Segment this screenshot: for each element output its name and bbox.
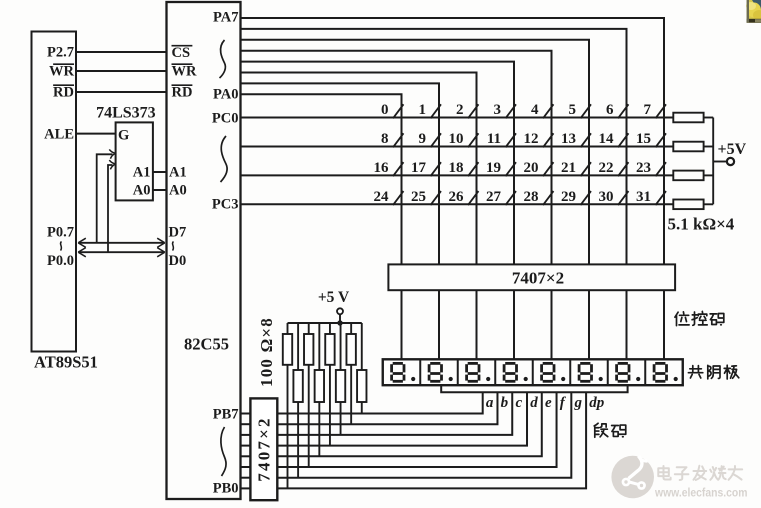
wire PB7 stub [241,413,251,415]
key 7 slash [656,104,667,118]
svg-text:dp: dp [589,395,605,411]
key 29 slash [581,191,592,205]
key 31 slash [656,191,667,205]
svg-text:5: 5 [569,102,577,118]
svg-text:22: 22 [599,160,614,176]
key 23 slash [656,162,667,176]
wire PA6 column [241,29,627,265]
svg-text:PA7: PA7 [213,10,239,26]
resistor 100ohm 1 [287,323,289,334]
svg-text:21: 21 [561,160,576,176]
squiggle PC [221,136,228,182]
svg-text:18: 18 [449,160,464,176]
wire segment 0 vertical [277,392,482,413]
key 15 slash [656,133,667,147]
key 13 slash [581,133,592,147]
svg-text:+5V: +5V [718,141,747,158]
wire digit drive 3 [476,290,478,359]
key 25 slash [431,191,442,205]
segment bus [441,385,627,392]
watermark text chinese [658,466,670,480]
key 21 slash [581,162,592,176]
label weikongma (bit control code) [675,312,689,326]
svg-text:www.elecfans.com: www.elecfans.com [654,486,747,500]
resistor 5.1k row2 [673,171,703,181]
buffer 7407x2 horizontal box [388,264,675,290]
svg-text:PA0: PA0 [213,86,239,102]
key 10 slash [468,133,479,147]
bus arrow P0.7-D7 [79,242,165,244]
resistor 100ohm 8 [361,323,363,370]
svg-text:0: 0 [381,102,389,118]
resistor 100ohm 6 [340,323,342,370]
svg-text:g: g [574,395,583,411]
wire A0 stub [153,189,167,191]
svg-text:27: 27 [486,189,502,205]
key 17 slash [431,162,442,176]
chip 74LS373 box [116,122,153,200]
svg-text:9: 9 [419,131,427,147]
7-segment digit 8 [654,363,666,381]
svg-text:15: 15 [636,131,651,147]
svg-text:100 Ω×8: 100 Ω×8 [257,317,276,387]
7-segment digit 7 [617,363,629,381]
wire ALE to G [76,133,116,135]
7-segment digit 2 [429,363,441,381]
wire PC2 row [241,174,674,176]
svg-text:7: 7 [644,102,652,118]
svg-text:RD: RD [172,85,193,101]
wire +5V tap [713,161,726,163]
7-segment digit 4 [504,363,516,381]
wire A1 stub [153,171,167,173]
key 3 slash [506,104,517,118]
svg-text:CS: CS [172,45,191,61]
svg-text:A0: A0 [169,183,187,199]
svg-text:14: 14 [599,131,615,147]
resistor 100ohm 3 [308,323,310,334]
svg-text:b: b [501,395,509,411]
wire digit drive 4 [513,290,515,359]
wire PC3 row [241,203,674,205]
resistor 5.1k row1 [673,142,703,152]
svg-text:20: 20 [524,160,539,176]
watermark logo [611,456,654,499]
display divider 7 [644,359,646,385]
terminal +5V circle mid [337,308,343,314]
svg-text:26: 26 [449,189,465,205]
key 28 slash [543,191,554,205]
svg-text:A1: A1 [169,165,187,181]
svg-text:28: 28 [524,189,539,205]
wire +5V rail mid [288,322,362,324]
svg-text:23: 23 [636,160,651,176]
chip 82C55 box [167,2,241,499]
svg-text:PB7: PB7 [213,407,239,423]
wire +5V rail right [712,118,714,205]
svg-text:RD: RD [53,85,74,101]
display divider 2 [457,359,459,385]
svg-text:e: e [545,395,552,411]
resistor 5.1k row0 [673,113,703,123]
wire +5V stem mid [339,315,341,324]
key 0 slash [393,104,404,118]
decorative image fragment [746,0,761,23]
key 4 slash [543,104,554,118]
wire digit drive 6 [588,290,590,359]
wire digit drive 8 [663,290,665,359]
svg-text:82C55: 82C55 [184,335,229,354]
wire PA0 column [241,94,402,264]
resistor 100ohm 5 [329,323,331,334]
svg-text:17: 17 [411,160,427,176]
svg-text:1: 1 [419,102,427,118]
wire PA1 column [241,83,440,264]
key 12 slash [543,133,554,147]
svg-text:74LS373: 74LS373 [96,105,156,122]
svg-text:31: 31 [636,189,651,205]
wire PA3 column [241,62,515,265]
key 8 slash [393,133,404,147]
bus arrow P0.0-D0 [79,251,165,253]
key 11 slash [506,133,517,147]
svg-text:16: 16 [374,160,390,176]
svg-text:7407×2: 7407×2 [254,416,273,481]
svg-text:7407×2: 7407×2 [512,269,564,288]
wire PA4 column [241,51,552,265]
wire PB2 stub [241,466,251,468]
wire PC1 row [241,146,674,148]
key 24 slash [393,191,404,205]
svg-text:D7: D7 [169,225,187,241]
wire PC0 row [241,117,674,119]
7-segment digit 3 [467,363,479,381]
svg-text:30: 30 [599,189,614,205]
wire segment 5 vertical [277,392,556,467]
display divider 4 [532,359,534,385]
key 26 slash [468,191,479,205]
wire P2.7 to CS [76,51,167,53]
svg-text:c: c [515,395,522,411]
svg-text:6: 6 [606,102,614,118]
svg-text:f: f [560,395,567,411]
7-segment digit 6 [579,363,591,381]
svg-text:29: 29 [561,189,576,205]
wire segment 6 vertical [277,392,571,478]
svg-text:PC0: PC0 [212,110,239,126]
squiggle P0 [61,242,62,251]
wire PB1 stub [241,477,251,479]
wire PB3 stub [241,455,251,457]
key 18 slash [468,162,479,176]
wire latch arrow 1 [97,154,113,243]
resistor 100ohm 4 [318,323,320,370]
buffer 7407x2 vertical box [250,398,277,500]
resistor 100ohm 7 [350,323,352,334]
svg-text:PC3: PC3 [212,197,239,213]
terminal +5V circle [727,158,734,165]
resistor 5.1k row3 [673,200,703,210]
label duanma (segment code) [594,423,608,437]
7-segment digit 5 [542,363,554,381]
display divider 5 [569,359,571,385]
svg-text:P2.7: P2.7 [47,45,74,61]
7-segment digit 1 [392,363,404,381]
wire PA7 column [241,18,665,264]
wire segment 2 vertical [277,392,512,435]
squiggle PA [220,40,226,78]
svg-text:a: a [486,395,494,411]
svg-text:PB0: PB0 [213,481,239,497]
key 30 slash [618,191,629,205]
squiggle D bus [173,242,174,251]
display row box [383,359,683,385]
svg-text:3: 3 [494,102,502,118]
key 9 slash [431,133,442,147]
wire PB5 stub [241,434,251,436]
key 27 slash [506,191,517,205]
wire PB6 stub [241,423,251,425]
svg-text:AT89S51: AT89S51 [34,353,98,372]
svg-text:4: 4 [531,102,539,118]
wire digit drive 5 [551,290,553,359]
chip AT89S51 box [32,32,77,352]
junction dot +5V [337,320,342,325]
svg-text:D0: D0 [169,253,187,269]
squiggle PB [221,427,226,476]
wire digit drive 1 [401,290,403,359]
key 16 slash [393,162,404,176]
svg-text:A1: A1 [133,165,151,181]
svg-text:WR: WR [49,64,75,80]
wire RD to RD [76,91,167,93]
key 22 slash [618,162,629,176]
wire PA5 column [241,40,590,265]
wire PB4 stub [241,445,251,447]
svg-text:+5 V: +5 V [318,289,350,306]
svg-text:25: 25 [411,189,426,205]
wire segment 1 vertical [277,392,497,424]
key 5 slash [581,104,592,118]
wire WR to WR [76,70,167,72]
svg-text:8: 8 [381,131,389,147]
svg-text:13: 13 [561,131,576,147]
wire segment 7 vertical [277,392,586,488]
key 20 slash [543,162,554,176]
svg-text:WR: WR [172,64,198,80]
svg-text:10: 10 [449,131,464,147]
svg-text:G: G [118,128,129,144]
wire segment 4 vertical [277,392,541,456]
display divider 1 [419,359,421,385]
display divider 6 [607,359,609,385]
svg-text:P0.0: P0.0 [47,253,74,269]
svg-text:11: 11 [487,131,501,147]
svg-text:ALE: ALE [44,127,74,143]
svg-text:24: 24 [374,189,390,205]
key 14 slash [618,133,629,147]
key 1 slash [431,104,442,118]
wire digit drive 7 [626,290,628,359]
display divider 3 [494,359,496,385]
svg-text:5.1 kΩ×4: 5.1 kΩ×4 [668,215,735,234]
svg-text:A0: A0 [133,183,151,199]
wire PA2 column [241,73,477,265]
label gongyinji (common cathode) [688,366,702,378]
svg-text:19: 19 [486,160,501,176]
key 19 slash [506,162,517,176]
wire PB0 stub [241,487,251,489]
svg-text:2: 2 [456,102,464,118]
svg-text:P0.7: P0.7 [47,225,74,241]
resistor 100ohm 2 [297,323,299,370]
svg-text:d: d [530,395,538,411]
wire digit drive 2 [438,290,440,359]
key 2 slash [468,104,479,118]
svg-text:12: 12 [524,131,539,147]
wire latch arrow 2 [108,165,113,252]
key 6 slash [618,104,629,118]
wire segment 3 vertical [277,392,527,445]
